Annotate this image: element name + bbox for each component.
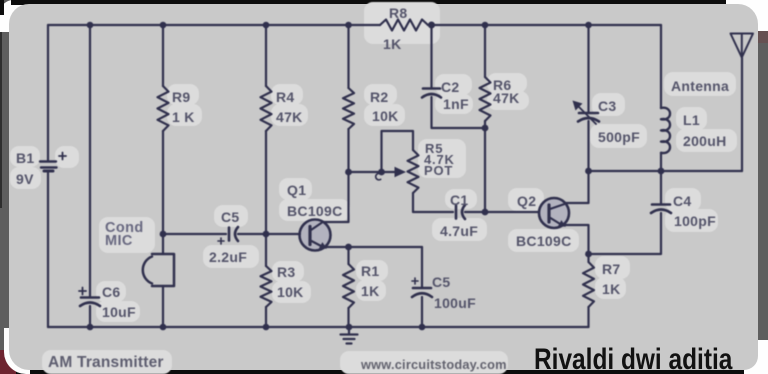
- label 4.7uF: [440, 223, 478, 239]
- label 100uF: [434, 295, 476, 311]
- label B1: [16, 150, 35, 166]
- label 100pF: [674, 213, 716, 229]
- variable capacitor C3: [579, 112, 598, 115]
- wire C5 100uF column upper: [421, 247, 423, 287]
- wire Q2 collector: [566, 171, 589, 203]
- wire pot bottom to C1: [413, 193, 453, 212]
- label POT: [424, 163, 453, 178]
- label 47K: [276, 109, 303, 125]
- label C1: [450, 192, 469, 208]
- label C6: [102, 284, 121, 300]
- resistor R2: [343, 88, 354, 129]
- resistor R3: [261, 266, 272, 307]
- label L1: [683, 112, 700, 128]
- potentiometer R5: [408, 150, 419, 193]
- wire C2 bottom link to R6: [432, 97, 486, 128]
- label Q1: [287, 182, 306, 198]
- label 1K R7: [602, 281, 621, 297]
- label Q2: [517, 193, 536, 209]
- capacitor C5 100uF: [413, 287, 431, 290]
- wire R1 top stub: [347, 247, 349, 264]
- wire R2 column top: [347, 25, 349, 88]
- wire R2 bottom to Q1 collector: [322, 129, 349, 222]
- label R9: [172, 89, 191, 105]
- label 10K: [372, 108, 399, 124]
- capacitor C4: [652, 203, 670, 206]
- white card corner TL (under bar): [0, 0, 31, 32]
- top black bar: [11, 0, 727, 5]
- label 1nF: [443, 96, 469, 112]
- label 4.7K: [424, 152, 455, 167]
- capacitor C6: [81, 296, 99, 299]
- label Cond: [105, 220, 144, 236]
- label R7: [602, 261, 621, 277]
- resistor R6: [480, 77, 491, 121]
- label 500pF: [598, 129, 640, 145]
- maroon bottom-right corner: [764, 364, 768, 374]
- label 200uH: [683, 133, 727, 149]
- wire left rail upper: [47, 25, 49, 160]
- label 10K R3: [277, 284, 304, 300]
- label C5 100uF: [432, 274, 451, 290]
- label C4: [673, 193, 692, 209]
- inductor L1: [661, 108, 670, 153]
- label 1 K: [172, 109, 195, 125]
- wire L1 column top: [660, 25, 662, 108]
- wire R6 column top: [484, 25, 486, 77]
- resistor R8: [380, 20, 428, 31]
- label 2.2uF: [209, 249, 247, 265]
- label 10uF: [102, 304, 136, 320]
- label R4: [276, 89, 295, 105]
- wire R9 to mic: [162, 131, 164, 254]
- capacitor C2: [423, 87, 440, 90]
- wire C5 100uF to bottom rail: [421, 297, 423, 327]
- white card corner TR: [726, 0, 768, 31]
- resistor R4: [261, 86, 272, 131]
- wire pot wiper arm: [349, 171, 396, 173]
- wire Q1 base from mic/C5: [163, 233, 226, 235]
- wire R7 top stub: [587, 254, 589, 262]
- wire C3 column top: [587, 25, 589, 112]
- wire R9 column top: [162, 25, 164, 86]
- label 9V: [16, 171, 34, 187]
- label R5: [425, 141, 443, 156]
- label 47K: [493, 90, 520, 106]
- pot wiper curl: [376, 173, 381, 179]
- wire C4 top stub: [660, 171, 662, 204]
- wire L1 bottom: [660, 153, 662, 171]
- capacitor C1: [455, 206, 458, 219]
- battery B1: [40, 162, 57, 172]
- capacitor C5 2.2uF: [228, 228, 231, 241]
- caption www.circuitstoday.com: [361, 357, 507, 372]
- antenna: [741, 58, 743, 172]
- battery plus sign: [59, 153, 66, 160]
- label MIC: [105, 233, 133, 249]
- black corner tip top-left: [0, 0, 4, 15]
- wire C3 bottom: [587, 121, 589, 171]
- resistor R7: [583, 262, 594, 307]
- pot wiper arrowhead: [395, 167, 407, 177]
- label R8: [389, 5, 408, 21]
- label backgrounds: [10, 146, 40, 167]
- label R2: [370, 89, 389, 105]
- wire R4 column top: [265, 25, 267, 86]
- label C2: [441, 79, 460, 95]
- white card corner BL: [4, 328, 30, 374]
- white card corner BR: [744, 340, 768, 374]
- label C3: [598, 98, 617, 114]
- wire mic to bottom rail: [162, 286, 164, 327]
- wire C4 bottom to R7 node: [589, 213, 661, 254]
- watermark Rivaldi dwi aditia: [534, 345, 732, 374]
- wire R3 to bottom rail: [265, 307, 267, 327]
- resistor R1: [343, 264, 354, 308]
- bottom black bar: [0, 369, 746, 374]
- wire left rail lower: [47, 172, 49, 327]
- wire C6 column lower: [89, 306, 91, 327]
- label C5 top: [221, 209, 240, 225]
- wire C6 column upper: [89, 25, 91, 297]
- wire C2 column: [430, 25, 432, 88]
- wire Q1 emitter rail: [326, 246, 423, 248]
- transistor Q1: [300, 220, 331, 251]
- wire Q2 emitter: [565, 225, 589, 254]
- wire top rail left of R8: [48, 24, 380, 26]
- wire top rail right of R8: [428, 24, 661, 26]
- wire tank bottom rail: [589, 170, 743, 172]
- wire pot top link: [382, 131, 414, 172]
- transistor Q2: [539, 198, 569, 228]
- label BC109C Q1: [287, 203, 343, 219]
- condenser MIC: [143, 254, 174, 286]
- maroon tint right top: [757, 31, 768, 43]
- ground symbol: [348, 327, 350, 334]
- maroon bottom-left corner: [0, 350, 16, 374]
- wire R4 to R3: [265, 131, 267, 266]
- wire C1 to Q2 base: [465, 211, 539, 213]
- wire bottom rail: [48, 326, 589, 328]
- wire R1 to bottom rail: [347, 308, 349, 327]
- label 1K R1: [361, 283, 380, 299]
- label R1: [361, 263, 380, 279]
- caption AM Transmitter: [48, 354, 164, 372]
- label Antenna: [671, 78, 729, 94]
- label 1K: [383, 36, 402, 52]
- wire R7 to bottom rail: [587, 307, 589, 327]
- dark left strip line: [0, 0, 2, 208]
- label R3: [277, 264, 296, 280]
- resistor R9: [158, 86, 169, 131]
- label BC109C Q2: [516, 233, 572, 249]
- label R6: [493, 77, 512, 93]
- wire R6 to C1 node: [484, 121, 486, 212]
